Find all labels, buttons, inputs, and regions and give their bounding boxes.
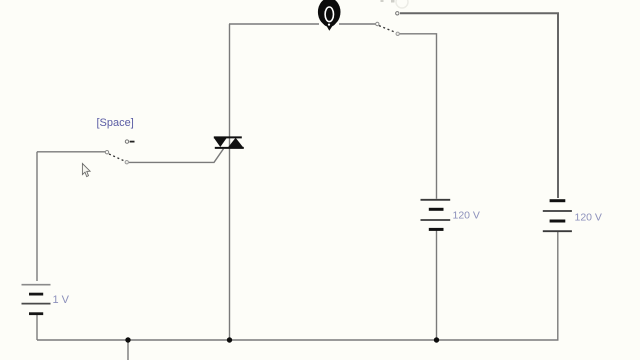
lamp body lower bulge bbox=[322, 12, 337, 27]
triac U1 left triangle (down) bbox=[214, 138, 227, 147]
svg-text:120 V: 120 V bbox=[453, 210, 480, 222]
wire right battery bottom lead bbox=[557, 231, 559, 340]
battery V3 short plate 2 bbox=[550, 220, 566, 223]
switch S1 arm (dashed) bbox=[109, 154, 125, 161]
battery V1 1V long plate 1 bbox=[22, 284, 51, 286]
battery V3 short plate 1 bbox=[550, 199, 566, 202]
lamp X1 body bbox=[318, 0, 341, 26]
wire left switch feed bbox=[37, 151, 105, 153]
lamp filament ring bbox=[325, 7, 333, 22]
wire ground stub below bus bbox=[127, 340, 129, 360]
svg-text:1 V: 1 V bbox=[53, 294, 70, 306]
triac U1 bottom bar bbox=[215, 147, 244, 149]
junction node at middle battery bus bbox=[434, 337, 439, 342]
lamp base dot bbox=[328, 24, 330, 26]
switch S1 open terminal bbox=[125, 140, 128, 143]
wire switch S2 lower throw to middle branch bbox=[399, 34, 437, 199]
battery V3 long plate 2 bbox=[543, 230, 572, 232]
battery V2 short plate 1 bbox=[429, 208, 444, 211]
switch S2 pivot bbox=[376, 22, 379, 25]
triac U1 top bar bbox=[214, 136, 242, 138]
switch S2 upper terminal bbox=[396, 12, 399, 15]
wire left vertical through triac (main terminal run) bbox=[229, 24, 231, 340]
switch S1 open terminal dash bbox=[130, 141, 135, 143]
battery V2 long plate 2 bbox=[421, 219, 451, 221]
battery V3 long plate 1 bbox=[543, 210, 572, 212]
battery V2 long plate 1 bbox=[421, 199, 451, 201]
switch S1 lower throw terminal bbox=[125, 161, 128, 164]
switch S2 lower throw terminal bbox=[396, 32, 399, 35]
battery V1 short plate 2 bbox=[29, 312, 43, 315]
switch S2 arm (dashed) bbox=[379, 26, 396, 33]
wire gate lead to triac bbox=[129, 149, 224, 163]
svg-text:120 V: 120 V bbox=[575, 212, 602, 224]
junction node at 1V/stub bbox=[125, 337, 130, 342]
mouse cursor bbox=[82, 164, 90, 177]
faint clipped label remnants top edge bbox=[381, 0, 384, 2]
wire right branch thick (S2 upper throw to right battery) bbox=[400, 13, 558, 198]
junction node at triac bus bbox=[227, 337, 232, 342]
wire left vertical (1V branch top) bbox=[36, 152, 38, 281]
lamp bottom tip bbox=[326, 25, 333, 31]
wire top-left horizontal (lamp left lead) bbox=[229, 23, 319, 25]
wire bottom bus bbox=[37, 339, 559, 341]
wire lamp right lead bbox=[339, 23, 376, 25]
battery V1 short plate 1 bbox=[29, 293, 43, 296]
switch S1 pivot bbox=[105, 151, 108, 154]
battery V2 short plate 2 bbox=[429, 228, 444, 231]
svg-text:[Space]: [Space] bbox=[97, 117, 134, 129]
battery V1 long plate 2 bbox=[22, 303, 51, 305]
wire 1V battery bottom lead bbox=[36, 314, 38, 340]
wire middle battery bottom lead bbox=[436, 230, 438, 341]
triac U1 right triangle (up) bbox=[228, 138, 244, 148]
